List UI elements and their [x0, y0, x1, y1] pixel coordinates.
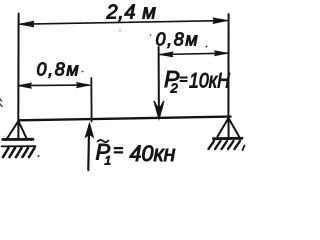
left support ground line	[2, 145, 36, 147]
left support base line	[3, 138, 33, 141]
arrowhead right of dimension 0,8m right	[215, 51, 229, 56]
extension tick at x=91 from dim to beam	[90, 78, 92, 122]
arrowhead of P1	[85, 123, 93, 138]
right support base line	[214, 137, 243, 140]
speck after left 0,8m label	[82, 71, 84, 73]
arrowhead left of dimension 2,4m	[19, 21, 34, 27]
force P1 arrow (up at beam)	[87, 126, 90, 170]
arrowhead left of dimension 0,8m right	[159, 52, 173, 57]
scan speck near 0,8 right	[150, 34, 152, 36]
speck after right 0,8m label	[206, 46, 208, 48]
left support hatching	[3, 148, 35, 157]
svg-text:0,8м: 0,8м	[37, 60, 81, 80]
svg-text:2: 2	[170, 81, 179, 96]
svg-text:0,8м: 0,8м	[156, 30, 200, 50]
force P2 arrow (down onto beam)	[158, 47, 160, 117]
extension line left (x=18.5)	[17, 14, 19, 122]
dimension line 0,8m right	[160, 53, 227, 54]
right support hatching	[209, 141, 241, 149]
svg-text:40кн: 40кн	[130, 141, 176, 166]
arrowhead right of dimension 0,8m left	[77, 82, 91, 88]
right support pin triangle	[218, 118, 240, 137]
scan smudge left edge	[0, 99, 2, 107]
left support pin triangle	[7, 121, 26, 138]
svg-text:10кН: 10кН	[189, 70, 231, 93]
svg-text:=: =	[180, 71, 188, 87]
dimension line 0,8m left	[19, 84, 89, 87]
speck after left hatching	[38, 155, 40, 157]
label P1 = 40 kN with tilde	[98, 140, 109, 142]
comma after right hatching	[243, 146, 245, 151]
arrowhead right of dimension 2,4m	[213, 18, 228, 24]
scan speck above left dim	[119, 30, 121, 32]
beam	[19, 117, 231, 121]
second chevron of P2 arrowhead	[154, 102, 163, 112]
svg-text:2,4 м: 2,4 м	[106, 1, 157, 23]
arrowhead of P2	[155, 105, 164, 120]
svg-text:1: 1	[105, 154, 112, 168]
svg-text:=: =	[114, 141, 124, 160]
dimension line 2,4m	[20, 21, 227, 25]
extension line right (x=228.5)	[227, 14, 229, 117]
arrowhead left of dimension 0,8m left	[18, 83, 32, 88]
